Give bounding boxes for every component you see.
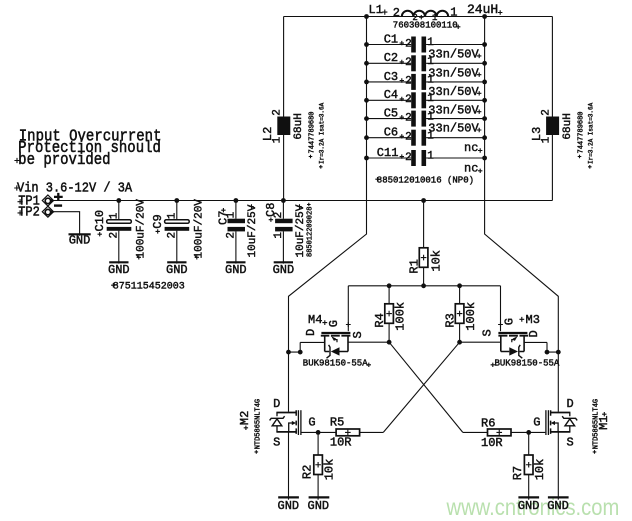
- M4 label: [308, 313, 327, 327]
- svg-text:M4: M4: [308, 313, 322, 327]
- svg-text:M2: M2: [238, 411, 252, 425]
- junction node A top: [364, 14, 369, 19]
- svg-text:2: 2: [405, 76, 412, 88]
- wire M4 gate: [347, 286, 349, 331]
- wire R4 leads: [388, 286, 390, 342]
- capacitor C11: [367, 146, 485, 176]
- svg-text:R3: R3: [444, 313, 458, 327]
- svg-text:C2: C2: [384, 51, 398, 65]
- junction R4 top: [387, 283, 392, 288]
- svg-text:TP2: TP2: [18, 204, 40, 220]
- L2 part 7447789680: [309, 111, 317, 158]
- L1 part number 760308100110: [393, 21, 461, 31]
- transistor M2 NTD5865NL: [270, 397, 316, 450]
- inductor L3: [530, 109, 559, 143]
- resistor R6: [488, 429, 512, 436]
- svg-text:2: 2: [393, 6, 400, 20]
- svg-text:10uF/25V: 10uF/25V: [247, 204, 259, 257]
- junction M3 drain wire: [545, 350, 550, 355]
- junction R1/gate rail: [421, 283, 426, 288]
- svg-text:2: 2: [272, 109, 284, 116]
- junction C3 left: [364, 80, 369, 85]
- capacitor C9: [151, 201, 189, 264]
- wire node A to L2 to Vin rail: [283, 17, 285, 201]
- svg-text:2: 2: [405, 112, 412, 124]
- svg-text:Ir=3.2A Isat=3.6A: Ir=3.2A Isat=3.6A: [319, 102, 326, 164]
- svg-text:G: G: [327, 320, 341, 327]
- inductor L1: [369, 3, 458, 23]
- ground GND (M2): [278, 497, 300, 513]
- ground GND (R2): [308, 497, 330, 513]
- wire R7 leads: [528, 432, 530, 499]
- resistor R5: [336, 429, 360, 436]
- capacitor C3: [367, 70, 485, 99]
- label Vin 3.6-12V / 3A: [14, 180, 132, 196]
- capacitor C1: [367, 32, 485, 61]
- svg-text:10R: 10R: [330, 436, 352, 450]
- junction M2 gate/R5/R2: [316, 430, 321, 435]
- part number 875115452003: [111, 282, 185, 293]
- L1 value 24uH: [467, 2, 502, 17]
- svg-text:1: 1: [109, 212, 121, 219]
- wire R6 leads: [463, 431, 529, 433]
- ground GND (TP2): [69, 234, 91, 248]
- C10 value 100uF/20V: [136, 199, 148, 260]
- svg-text:7447789680: 7447789680: [578, 111, 586, 153]
- M4 part BUK98150-55A: [303, 359, 371, 369]
- junction C1 right: [482, 42, 487, 47]
- wire node B bus to M3/M1 drains: [485, 17, 559, 412]
- svg-text:BUK98150-55A: BUK98150-55A: [303, 359, 368, 369]
- svg-text:C1: C1: [384, 32, 398, 46]
- junction C6 left: [364, 135, 369, 140]
- ground GND (M1): [547, 497, 569, 513]
- junction C11 left: [364, 156, 369, 161]
- svg-text:R5: R5: [330, 416, 344, 430]
- svg-text:100k: 100k: [393, 302, 407, 331]
- inductor L2: [261, 109, 290, 143]
- wire gate rail: [348, 285, 500, 287]
- svg-text:D: D: [273, 397, 280, 411]
- wire top rail (tank node A-B): [284, 16, 553, 18]
- wire C8 leads: [282, 201, 284, 264]
- svg-text:C11: C11: [377, 146, 399, 160]
- svg-text:2: 2: [273, 212, 285, 219]
- wire M3 gate: [500, 286, 502, 331]
- C8 value 10uF/25V: [295, 204, 307, 257]
- transistor M3 BUK98150-55A: [460, 286, 559, 358]
- svg-text:D: D: [567, 397, 574, 411]
- svg-text:nc: nc: [464, 141, 478, 155]
- svg-text:33n/50V: 33n/50V: [428, 85, 479, 99]
- ground GND (C7): [225, 262, 247, 277]
- capacitor C2: [367, 51, 485, 80]
- svg-text:24uH: 24uH: [467, 2, 498, 17]
- svg-text:885012209028: 885012209028: [307, 207, 315, 257]
- junction C5 left: [364, 116, 369, 121]
- ground GND (C8): [273, 262, 295, 277]
- svg-text:R4: R4: [373, 313, 387, 327]
- svg-text:10uF/25V: 10uF/25V: [295, 204, 307, 257]
- svg-text:GND: GND: [69, 234, 91, 248]
- junction C10/Vin: [116, 198, 121, 203]
- svg-text:NTD5865NLT4G: NTD5865NLT4G: [254, 399, 262, 449]
- svg-text:C9: C9: [151, 214, 165, 228]
- junction M1 gate/R6/R7: [526, 430, 531, 435]
- junction C2 left: [364, 61, 369, 66]
- junction C1 left: [364, 42, 369, 47]
- svg-text:1: 1: [540, 136, 552, 143]
- junction C2 right: [482, 61, 487, 66]
- svg-text:2: 2: [167, 232, 179, 239]
- svg-text:1: 1: [226, 211, 238, 218]
- capacitor C10: [93, 201, 131, 264]
- ground GND (C9): [166, 262, 188, 277]
- transistor M1 NTD5865NL: [533, 397, 577, 450]
- svg-text:Ir=3.2A Isat=3.6A: Ir=3.2A Isat=3.6A: [588, 102, 595, 164]
- svg-text:be provided: be provided: [18, 150, 110, 169]
- junction R4/M4 source: [387, 340, 392, 345]
- svg-text:D: D: [304, 329, 318, 336]
- C7 value 10uF/25V: [247, 204, 259, 257]
- wire M2 source to ground: [288, 432, 290, 499]
- wire M3 source to R5 (diagonal): [383, 342, 459, 432]
- svg-text:1: 1: [273, 232, 285, 239]
- wire node B to L3 to Vin rail: [551, 17, 553, 201]
- svg-text:S: S: [273, 436, 280, 450]
- wire M4 source to R6 (diagonal): [389, 342, 463, 432]
- svg-text:2: 2: [540, 109, 552, 116]
- junction M4 drain wire: [298, 350, 303, 355]
- svg-text:C5: C5: [384, 107, 398, 121]
- svg-text:7447789680: 7447789680: [309, 111, 317, 153]
- junction C11 right: [482, 156, 487, 161]
- junction R3 top: [457, 283, 462, 288]
- svg-text:G: G: [308, 416, 315, 430]
- ground GND (C10): [108, 262, 130, 277]
- svg-text:760308100110: 760308100110: [393, 21, 458, 31]
- svg-text:G: G: [533, 416, 540, 430]
- svg-text:2: 2: [405, 152, 412, 164]
- svg-text:S: S: [351, 331, 365, 338]
- svg-text:R7: R7: [511, 466, 525, 480]
- wire M1 source to ground: [557, 432, 559, 499]
- junction C7/Vin: [234, 198, 239, 203]
- junction M3 drain / node B: [556, 350, 561, 355]
- junction C5 right: [482, 116, 487, 121]
- wire R3 leads: [459, 286, 461, 342]
- svg-text:33n/50V: 33n/50V: [428, 66, 479, 80]
- capacitor C4: [367, 88, 485, 117]
- svg-text:C10: C10: [93, 210, 107, 232]
- capacitor bank part 885012010016 (NP0): [375, 175, 474, 185]
- svg-text:D: D: [527, 330, 541, 337]
- svg-text:100uF/20V: 100uF/20V: [194, 199, 206, 259]
- svg-text:GND: GND: [518, 499, 540, 513]
- svg-text:10k: 10k: [430, 250, 444, 272]
- wire TP2 to ground: [54, 212, 80, 236]
- svg-text:GND: GND: [166, 263, 188, 277]
- svg-text:33n/50V: 33n/50V: [428, 103, 479, 117]
- junction C4 left: [364, 98, 369, 103]
- svg-text:nc: nc: [464, 161, 478, 175]
- svg-text:S: S: [481, 329, 495, 336]
- svg-text:BUK98150-55A: BUK98150-55A: [495, 359, 560, 369]
- L2 rating Ir=3.2A Isat=3.6A: [319, 102, 326, 168]
- junction C6 right: [482, 135, 487, 140]
- capacitor C6: [367, 126, 485, 156]
- ground GND (R7): [518, 497, 540, 513]
- junction C4 right: [482, 98, 487, 103]
- junction R3/M3 source: [457, 340, 462, 345]
- L3 part 7447789680: [578, 111, 586, 158]
- note text Input Overcurrent Protection should be provided: [18, 126, 161, 169]
- M1 part NTD5865NLT4G: [593, 399, 601, 454]
- svg-text:C4: C4: [384, 88, 398, 102]
- capacitor C5: [367, 107, 485, 136]
- svg-text:1: 1: [450, 5, 457, 19]
- svg-text:1: 1: [167, 212, 179, 219]
- svg-text:GND: GND: [547, 499, 569, 513]
- svg-text:L1: L1: [369, 3, 383, 17]
- watermark www.cntronics.com: [446, 494, 620, 520]
- capacitor C7: [217, 201, 246, 264]
- svg-text:68uH: 68uH: [562, 113, 574, 139]
- resistor R2: [314, 455, 323, 475]
- svg-text:10k: 10k: [322, 459, 336, 481]
- M2 label: [238, 411, 252, 430]
- transistor M4 BUK98150-55A: [289, 286, 390, 358]
- svg-text:R2: R2: [300, 465, 314, 479]
- polarity minus mark: [54, 204, 62, 206]
- M3 part BUK98150-55A: [491, 359, 560, 369]
- svg-text:C3: C3: [384, 70, 398, 84]
- M2 part NTD5865NLT4G: [254, 399, 262, 454]
- svg-text:1: 1: [427, 151, 434, 163]
- svg-text:S: S: [567, 436, 574, 450]
- svg-text:2: 2: [405, 94, 412, 106]
- svg-text:1: 1: [272, 136, 284, 143]
- svg-text:2: 2: [226, 232, 238, 239]
- svg-text:885012010016 (NP0): 885012010016 (NP0): [377, 175, 474, 185]
- wire C7 leads: [235, 201, 237, 264]
- wire R2 leads: [317, 432, 319, 499]
- svg-text:GND: GND: [108, 263, 130, 277]
- svg-text:2: 2: [405, 38, 412, 50]
- junction R1/Vin: [421, 198, 426, 203]
- M3 label: [519, 313, 540, 327]
- svg-text:GND: GND: [273, 263, 295, 277]
- svg-text:100k: 100k: [464, 302, 478, 331]
- resistor R3: [455, 304, 464, 324]
- polarity plus mark: [54, 193, 63, 201]
- svg-text:C6: C6: [384, 126, 398, 140]
- svg-text:GND: GND: [308, 499, 330, 513]
- svg-text:GND: GND: [225, 263, 247, 277]
- L3 rating Ir=3.2A Isat=3.6A: [588, 102, 595, 168]
- wire M2 gate: [302, 431, 319, 433]
- svg-text:33n/50V: 33n/50V: [428, 48, 479, 62]
- M1 label: [597, 412, 611, 430]
- svg-text:2: 2: [405, 132, 412, 144]
- capacitor C8: [264, 201, 293, 264]
- wire R1 leads: [423, 201, 425, 286]
- junction C9/Vin: [174, 198, 179, 203]
- junction M4 drain / node A: [286, 350, 291, 355]
- resistor R1: [419, 248, 428, 267]
- C9 value 100uF/20V: [194, 199, 206, 260]
- wire Vin rail: [54, 200, 553, 202]
- svg-text:2: 2: [405, 57, 412, 69]
- svg-text:G: G: [502, 318, 516, 325]
- wire M1 gate: [529, 431, 546, 433]
- svg-text:GND: GND: [278, 499, 300, 513]
- svg-text:100uF/20V: 100uF/20V: [136, 199, 148, 259]
- testpoint TP2: [18, 204, 55, 220]
- junction C8/L2/Vin: [281, 198, 286, 203]
- svg-text:1: 1: [427, 130, 434, 142]
- svg-text:NTD5865NLT4G: NTD5865NLT4G: [593, 399, 601, 449]
- svg-text:68uH: 68uH: [293, 113, 305, 139]
- svg-text:10R: 10R: [481, 436, 503, 450]
- wire R5 leads: [318, 431, 383, 433]
- resistor R7: [524, 455, 533, 475]
- svg-text:33n/50V: 33n/50V: [428, 122, 479, 136]
- testpoint TP1: [18, 193, 55, 209]
- wire C10 leads: [118, 201, 120, 264]
- junction C3 right: [482, 80, 487, 85]
- wire C9 leads: [176, 201, 178, 264]
- C8 part 885012209028: [307, 203, 315, 257]
- junction node B top: [482, 14, 487, 19]
- svg-text:M3: M3: [526, 313, 540, 327]
- svg-text:R1: R1: [408, 259, 422, 273]
- svg-text:2: 2: [109, 232, 121, 239]
- svg-text:875115452003: 875115452003: [113, 282, 185, 293]
- wire node A bus to M4/M2 drains: [289, 17, 367, 412]
- svg-text:R6: R6: [481, 416, 495, 430]
- svg-text:10k: 10k: [533, 459, 547, 481]
- resistor R4: [385, 304, 394, 324]
